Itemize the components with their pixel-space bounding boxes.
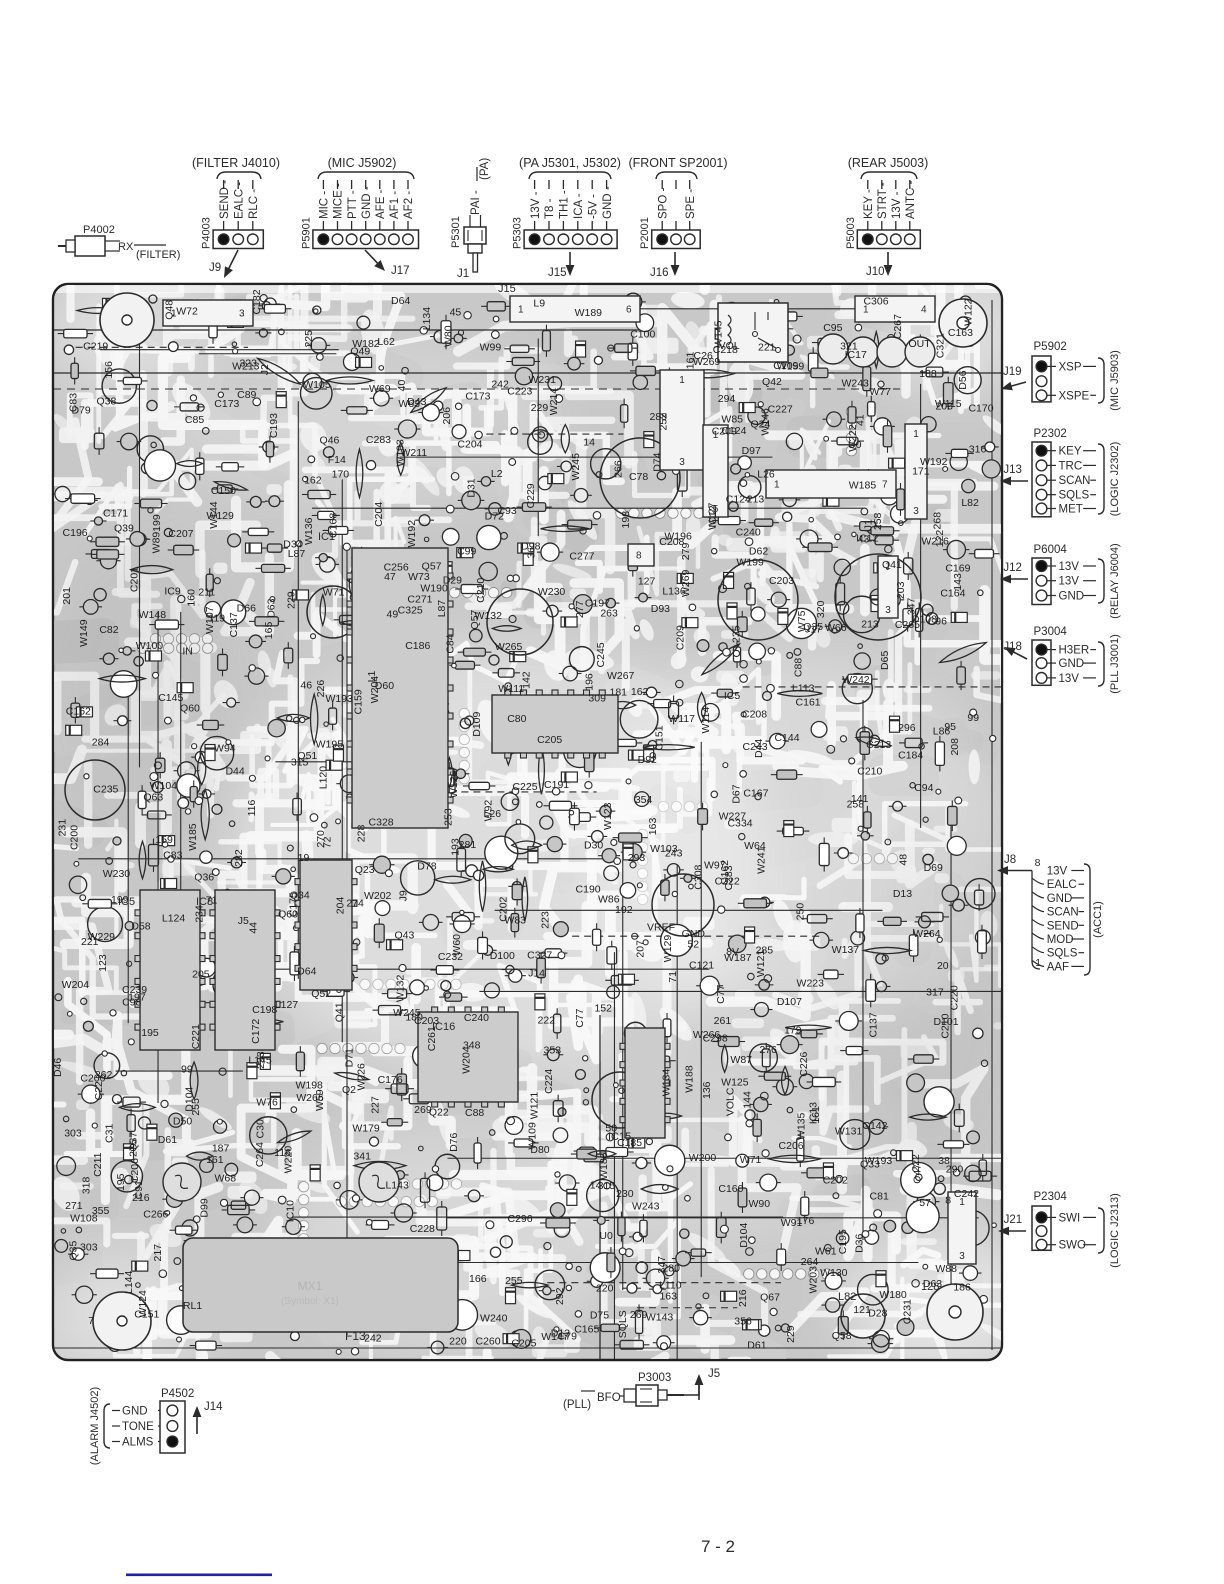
footer mark <box>126 1574 272 1577</box>
svg-text:353: 353 <box>544 1044 562 1056</box>
svg-text:196: 196 <box>583 673 595 691</box>
svg-text:W220: W220 <box>283 1146 295 1174</box>
svg-text:C204: C204 <box>373 502 385 527</box>
svg-text:195: 195 <box>115 1173 127 1191</box>
svg-text:J5: J5 <box>708 1368 720 1380</box>
svg-text:263: 263 <box>600 608 618 620</box>
svg-text:176: 176 <box>797 1215 815 1227</box>
svg-text:222: 222 <box>538 1014 556 1026</box>
connector footprint J21 tall <box>948 1192 976 1264</box>
svg-text:C207: C207 <box>168 528 193 540</box>
svg-text:C80: C80 <box>507 713 526 725</box>
pin STRT <box>881 180 883 189</box>
svg-text:207: 207 <box>634 940 646 958</box>
svg-text:W99: W99 <box>480 341 502 353</box>
svg-text:123: 123 <box>97 954 109 972</box>
svg-text:C209: C209 <box>712 425 737 437</box>
svg-text:(LOGIC J2302): (LOGIC J2302) <box>1109 442 1121 517</box>
svg-text:W66: W66 <box>825 622 847 634</box>
svg-text:160: 160 <box>185 589 197 607</box>
svg-text:179: 179 <box>784 1024 802 1036</box>
svg-text:303: 303 <box>64 1127 82 1139</box>
svg-text:281: 281 <box>459 839 477 851</box>
svg-text:D65: D65 <box>879 651 891 670</box>
svg-text:W187: W187 <box>724 952 752 964</box>
svg-text:13V -: 13V - <box>530 191 542 219</box>
connector footprint J15 <box>510 296 640 322</box>
svg-text:C223: C223 <box>507 385 532 397</box>
pin SQLS <box>1032 947 1044 953</box>
svg-text:Q57: Q57 <box>469 609 481 629</box>
svg-text:C162: C162 <box>66 705 91 717</box>
svg-text:W72: W72 <box>176 306 198 318</box>
svg-text:220: 220 <box>449 1336 467 1348</box>
svg-text:170: 170 <box>332 468 350 480</box>
svg-text:W122: W122 <box>963 298 975 326</box>
svg-text:1: 1 <box>774 480 780 491</box>
svg-text:W61: W61 <box>815 1246 837 1258</box>
solder pad rows <box>137 407 897 1280</box>
svg-text:W76: W76 <box>256 1096 278 1108</box>
svg-text:W68: W68 <box>214 1172 236 1184</box>
svg-text:D61: D61 <box>158 1134 177 1146</box>
svg-text:IC10: IC10 <box>284 1200 296 1222</box>
svg-text:W69: W69 <box>369 383 391 395</box>
copper traces <box>0 173 1078 1501</box>
svg-text:AAF: AAF <box>1047 961 1069 973</box>
svg-text:W188: W188 <box>683 1065 695 1093</box>
svg-text:D92: D92 <box>638 754 657 766</box>
pin ALMS <box>112 1441 120 1443</box>
svg-text:D36: D36 <box>853 1233 865 1252</box>
op-amp IC15 package <box>625 1028 665 1138</box>
op-amp IC5 package <box>140 890 200 1050</box>
svg-text:D67: D67 <box>731 784 743 803</box>
svg-text:W264: W264 <box>913 928 941 940</box>
op-amp IC1 package <box>352 548 448 828</box>
pin -5V <box>591 180 593 189</box>
svg-text:C203: C203 <box>769 575 794 587</box>
svg-text:187: 187 <box>212 1143 230 1155</box>
svg-text:W88: W88 <box>935 1263 957 1275</box>
svg-text:D69: D69 <box>924 862 943 874</box>
svg-text:D97: D97 <box>742 445 761 457</box>
svg-text:W104: W104 <box>150 780 178 792</box>
svg-text:W223: W223 <box>797 977 825 989</box>
svg-text:F14: F14 <box>328 454 346 466</box>
svg-text:275: 275 <box>127 1139 139 1157</box>
svg-text:D61: D61 <box>747 1339 766 1351</box>
svg-text:C200: C200 <box>80 1073 105 1085</box>
svg-text:204: 204 <box>335 897 347 915</box>
svg-text:C225: C225 <box>512 781 537 793</box>
svg-text:228: 228 <box>356 825 368 843</box>
mounting hole bottom-left <box>93 1292 151 1350</box>
svg-text:W89: W89 <box>150 532 162 554</box>
svg-text:161: 161 <box>206 1154 224 1166</box>
svg-text:W190: W190 <box>420 583 448 595</box>
svg-text:206: 206 <box>441 407 453 425</box>
svg-text:261: 261 <box>714 1015 732 1027</box>
svg-text:W143: W143 <box>646 1312 674 1324</box>
svg-text:C176: C176 <box>378 1074 403 1086</box>
svg-text:356: 356 <box>734 1315 752 1327</box>
svg-text:AF2 -: AF2 - <box>403 191 415 219</box>
svg-text:W80: W80 <box>442 325 454 347</box>
pin SEND <box>1032 919 1044 925</box>
svg-text:D98: D98 <box>521 540 540 552</box>
svg-text:W245: W245 <box>570 453 582 481</box>
svg-text:W242: W242 <box>842 674 870 686</box>
shield can IC15 <box>592 1072 648 1128</box>
svg-text:C182: C182 <box>251 289 263 314</box>
svg-text:W192: W192 <box>406 520 418 548</box>
svg-text:C137: C137 <box>228 612 240 637</box>
svg-text:TH1 -: TH1 - <box>559 190 571 219</box>
pin KEY <box>867 180 869 189</box>
svg-text:Q57: Q57 <box>422 561 442 573</box>
svg-text:14: 14 <box>583 436 595 448</box>
svg-text:280: 280 <box>662 1262 680 1274</box>
svg-text:7: 7 <box>88 1315 94 1327</box>
svg-text:C264: C264 <box>254 1142 266 1167</box>
svg-text:L113: L113 <box>792 683 815 695</box>
svg-text:C151: C151 <box>654 725 666 750</box>
svg-text:C211: C211 <box>92 1152 104 1176</box>
svg-text:C221: C221 <box>190 1024 202 1049</box>
svg-text:181: 181 <box>609 687 627 699</box>
svg-text:P5301: P5301 <box>450 216 462 248</box>
svg-text:72: 72 <box>322 836 334 848</box>
svg-text:C161: C161 <box>796 697 821 709</box>
svg-text:W189: W189 <box>575 307 603 319</box>
pin MICE <box>337 180 339 189</box>
svg-text:P5303: P5303 <box>512 217 524 249</box>
svg-text:C206: C206 <box>779 1140 804 1152</box>
pin GND <box>606 180 608 189</box>
svg-text:W269: W269 <box>693 356 721 368</box>
svg-text:VREF: VREF <box>647 922 675 934</box>
svg-text:C227: C227 <box>768 404 793 416</box>
svg-text:W266: W266 <box>296 1092 324 1104</box>
svg-text:8: 8 <box>945 1194 951 1206</box>
svg-text:W132: W132 <box>394 975 406 1003</box>
svg-text:XSP: XSP <box>1059 361 1082 373</box>
svg-text:W231: W231 <box>529 374 557 386</box>
svg-text:SWI: SWI <box>1059 1212 1081 1224</box>
svg-text:W103: W103 <box>650 843 678 855</box>
svg-text:205: 205 <box>192 969 210 981</box>
svg-text:W265: W265 <box>495 641 523 653</box>
svg-text:T8 -: T8 - <box>544 198 556 219</box>
svg-text:Q60: Q60 <box>180 702 200 714</box>
svg-text:C245: C245 <box>595 642 607 667</box>
svg-text:Q39: Q39 <box>114 522 134 534</box>
svg-text:EALC -: EALC - <box>233 182 245 219</box>
svg-text:RX: RX <box>118 241 134 253</box>
svg-text:8: 8 <box>636 551 642 562</box>
svg-text:D64: D64 <box>391 295 410 307</box>
pin GND <box>1032 892 1044 898</box>
connector footprint J13 tall <box>905 424 927 519</box>
svg-text:J16: J16 <box>650 267 669 279</box>
svg-text:3: 3 <box>959 1251 965 1262</box>
svg-text:C186: C186 <box>405 640 430 652</box>
svg-text:W125: W125 <box>721 1076 749 1088</box>
svg-text:C240: C240 <box>736 526 761 538</box>
pin SEND <box>223 180 225 189</box>
svg-text:(PA): (PA) <box>479 158 491 180</box>
svg-text:U0: U0 <box>848 439 862 451</box>
svg-text:20: 20 <box>937 960 949 972</box>
pin AF2 <box>407 180 409 189</box>
svg-text:P6004: P6004 <box>1034 544 1068 556</box>
svg-text:RL1: RL1 <box>183 1300 202 1312</box>
svg-text:C169: C169 <box>945 562 970 574</box>
svg-text:C334: C334 <box>727 817 752 829</box>
svg-text:162: 162 <box>304 474 322 486</box>
svg-text:KEY -: KEY - <box>863 189 875 219</box>
svg-text:J1: J1 <box>457 268 469 280</box>
svg-text:166: 166 <box>469 1273 487 1285</box>
svg-text:19: 19 <box>298 852 310 864</box>
svg-text:203: 203 <box>935 401 953 413</box>
svg-text:W203: W203 <box>808 1266 820 1294</box>
svg-text:W226: W226 <box>355 1063 367 1091</box>
svg-text:L82: L82 <box>838 1291 856 1303</box>
svg-text:D31: D31 <box>465 478 477 497</box>
pin PTT <box>351 180 353 189</box>
svg-text:P5003: P5003 <box>845 217 857 249</box>
svg-text:C308: C308 <box>692 864 704 889</box>
svg-text:C206: C206 <box>129 1158 141 1183</box>
svg-text:99: 99 <box>181 1064 193 1076</box>
svg-text:VOLC: VOLC <box>724 1087 736 1116</box>
svg-text:C173: C173 <box>214 398 239 410</box>
svg-text:3: 3 <box>885 605 891 616</box>
svg-text:223: 223 <box>539 911 551 929</box>
pin AFE <box>379 180 381 189</box>
svg-text:D109: D109 <box>471 711 483 736</box>
svg-text:221: 221 <box>758 341 776 353</box>
svg-text:227: 227 <box>370 1096 382 1114</box>
svg-text:W179: W179 <box>352 1123 380 1135</box>
svg-text:J17: J17 <box>391 265 410 277</box>
svg-text:D46: D46 <box>52 1058 64 1077</box>
pin EALC <box>1032 878 1044 884</box>
svg-text:242: 242 <box>364 1332 382 1344</box>
svg-text:D44: D44 <box>753 739 765 758</box>
op-amp IC14 package <box>492 695 618 753</box>
svg-text:D34: D34 <box>283 539 302 551</box>
svg-text:W75: W75 <box>796 610 808 632</box>
svg-text:13V: 13V <box>1059 673 1080 685</box>
svg-text:C220: C220 <box>949 985 961 1010</box>
svg-text:W136: W136 <box>303 517 315 545</box>
svg-text:38: 38 <box>938 1155 950 1167</box>
svg-text:L9: L9 <box>533 298 545 310</box>
svg-text:H3ER: H3ER <box>1059 645 1090 657</box>
svg-text:296: 296 <box>898 722 916 734</box>
svg-text:341: 341 <box>353 1150 371 1162</box>
svg-text:320: 320 <box>815 600 827 618</box>
svg-text:W108: W108 <box>70 1213 98 1225</box>
svg-text:1: 1 <box>1035 957 1041 969</box>
svg-text:W193: W193 <box>325 693 353 705</box>
capacitor C187 <box>718 560 798 640</box>
svg-text:P4502: P4502 <box>161 1388 194 1400</box>
svg-text:C165: C165 <box>574 1324 599 1336</box>
svg-text:C82: C82 <box>99 624 118 636</box>
svg-text:(FILTER): (FILTER) <box>136 249 180 261</box>
svg-text:282: 282 <box>233 849 245 867</box>
svg-text:C81: C81 <box>870 1191 889 1203</box>
svg-text:234: 234 <box>193 905 205 923</box>
svg-text:7 - 2: 7 - 2 <box>701 1537 735 1556</box>
svg-text:W63: W63 <box>398 398 420 410</box>
svg-text:C31: C31 <box>103 1124 115 1143</box>
svg-text:D63: D63 <box>923 1278 942 1290</box>
svg-text:309: 309 <box>588 692 606 704</box>
svg-text:50: 50 <box>605 1122 617 1134</box>
svg-text:C200: C200 <box>68 825 80 850</box>
svg-text:354: 354 <box>635 794 653 806</box>
svg-text:44: 44 <box>247 922 259 934</box>
svg-text:P5901: P5901 <box>300 217 312 249</box>
svg-text:Q63: Q63 <box>143 791 163 803</box>
svg-text:Q24: Q24 <box>751 419 771 431</box>
coil L93 <box>818 334 848 364</box>
relay RL1 <box>718 303 788 362</box>
svg-text:C242: C242 <box>954 1188 979 1200</box>
svg-text:(LOGIC J2313): (LOGIC J2313) <box>1109 1193 1121 1268</box>
svg-text:Q2: Q2 <box>342 1084 356 1096</box>
svg-text:C195: C195 <box>837 1229 849 1254</box>
svg-text:C150: C150 <box>211 485 236 497</box>
svg-text:W134: W134 <box>660 1069 672 1097</box>
svg-text:W216: W216 <box>921 535 949 547</box>
svg-text:C271: C271 <box>407 594 432 606</box>
svg-text:L2: L2 <box>491 468 503 480</box>
svg-text:40: 40 <box>396 379 408 391</box>
svg-text:199: 199 <box>151 514 163 532</box>
connector footprint J19 tall <box>703 425 728 517</box>
connector footprint 1-4 <box>855 296 935 322</box>
svg-text:P4002: P4002 <box>83 224 115 236</box>
svg-text:C229: C229 <box>525 483 537 508</box>
svg-text:W135: W135 <box>796 1112 808 1140</box>
svg-text:144: 144 <box>742 1091 754 1109</box>
capacitor C185 <box>487 589 553 655</box>
svg-text:71: 71 <box>206 894 218 906</box>
svg-text:253: 253 <box>443 808 455 826</box>
svg-text:W211: W211 <box>400 447 427 459</box>
pin ANTC <box>909 180 911 189</box>
svg-text:EALC: EALC <box>1047 879 1077 891</box>
svg-text:W185: W185 <box>849 479 877 491</box>
coil L82 <box>841 1294 885 1338</box>
svg-text:D107: D107 <box>777 996 802 1008</box>
svg-text:Q38: Q38 <box>97 396 117 408</box>
svg-text:W83: W83 <box>504 914 526 926</box>
svg-text:SQLS: SQLS <box>1047 948 1078 960</box>
svg-text:255: 255 <box>190 1098 202 1116</box>
svg-text:D13: D13 <box>893 888 912 900</box>
svg-text:6: 6 <box>626 305 632 316</box>
svg-text:Q48: Q48 <box>163 300 175 320</box>
pin 13V <box>534 180 536 189</box>
svg-text:C202: C202 <box>823 1174 848 1186</box>
svg-text:C144: C144 <box>774 732 799 744</box>
svg-text:L124: L124 <box>162 913 186 925</box>
coil can <box>307 586 359 638</box>
coil L94 <box>848 337 878 367</box>
pin RLC <box>252 180 254 189</box>
svg-text:52: 52 <box>687 938 699 950</box>
svg-text:Q52: Q52 <box>311 988 331 1000</box>
svg-text:J12: J12 <box>1003 562 1022 574</box>
pin MOD <box>1032 933 1044 939</box>
svg-text:W111: W111 <box>498 683 524 695</box>
svg-text:229: 229 <box>531 402 549 414</box>
PCB board outline <box>53 284 1002 1360</box>
svg-text:C232: C232 <box>438 951 463 963</box>
svg-text:C83: C83 <box>163 850 182 862</box>
svg-text:C30: C30 <box>254 1119 266 1138</box>
svg-text:271: 271 <box>65 1200 83 1212</box>
svg-text:J2: J2 <box>259 364 271 375</box>
svg-text:Q22: Q22 <box>429 1107 449 1119</box>
svg-text:W195: W195 <box>316 738 344 750</box>
svg-text:STRT -: STRT - <box>877 182 889 219</box>
shield can W110 <box>600 438 680 518</box>
pin AF1 <box>393 180 395 189</box>
svg-text:J19: J19 <box>1003 366 1022 378</box>
connector footprint J18 <box>660 370 704 470</box>
svg-text:46: 46 <box>300 680 312 692</box>
svg-text:C121: C121 <box>689 959 714 971</box>
svg-text:C196: C196 <box>63 527 88 539</box>
svg-text:L62: L62 <box>377 336 395 348</box>
svg-text:W148: W148 <box>139 609 167 621</box>
svg-text:C205: C205 <box>511 1337 536 1349</box>
svg-text:315: 315 <box>291 756 309 768</box>
svg-text:43: 43 <box>858 534 870 546</box>
svg-text:Q49: Q49 <box>350 346 370 358</box>
svg-text:D74: D74 <box>651 452 663 471</box>
svg-text:W202: W202 <box>364 890 392 902</box>
svg-text:C267: C267 <box>892 314 904 339</box>
svg-text:SEND: SEND <box>1047 920 1079 932</box>
svg-text:(REAR J5003): (REAR J5003) <box>848 156 929 170</box>
svg-text:220: 220 <box>596 1282 614 1294</box>
svg-text:RLC -: RLC - <box>248 189 260 219</box>
svg-text:C83: C83 <box>68 393 80 412</box>
svg-text:L26: L26 <box>757 468 775 480</box>
board copper-pour mottling <box>21 268 1009 1384</box>
svg-text:L26: L26 <box>484 808 502 820</box>
svg-text:GND: GND <box>682 928 706 940</box>
svg-text:MIC -: MIC - <box>319 191 331 219</box>
svg-text:274: 274 <box>346 898 364 910</box>
svg-text:W107: W107 <box>204 606 216 634</box>
svg-text:C205: C205 <box>537 734 562 746</box>
svg-text:W85: W85 <box>721 413 743 425</box>
svg-text:W149: W149 <box>78 619 90 647</box>
svg-text:192: 192 <box>615 904 633 916</box>
svg-text:IC9: IC9 <box>164 586 181 598</box>
svg-text:199: 199 <box>111 894 129 906</box>
